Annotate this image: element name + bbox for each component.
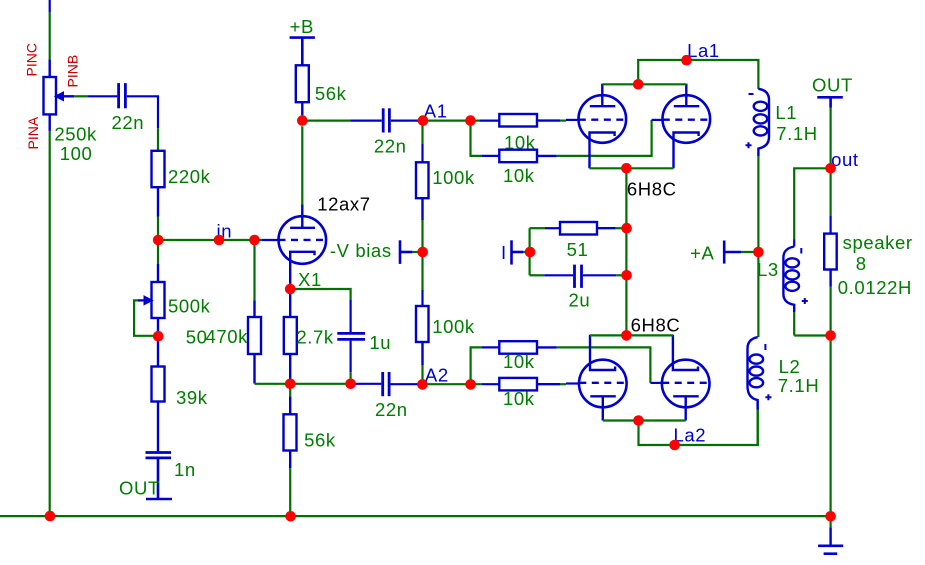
svg-text:X1: X1	[298, 269, 322, 290]
node 1u bottom	[345, 379, 356, 390]
svg-text:1u: 1u	[369, 332, 391, 353]
resistor R6 470k	[248, 300, 261, 383]
wire lower cathodes connector	[590, 334, 673, 336]
node La1	[681, 55, 692, 66]
wire C5 to A2	[391, 383, 423, 385]
wire 2u right lead	[583, 274, 627, 276]
wire 1u to bottom row	[350, 341, 352, 384]
terminal OUT (bottom left)	[146, 459, 172, 499]
capacitor C5 22n (to A2)	[383, 372, 389, 396]
wire C3 to A1	[391, 119, 424, 121]
svg-text:100k: 100k	[432, 316, 475, 337]
triode V1 6H8C (upper left)	[579, 84, 627, 169]
svg-text:La1: La1	[687, 40, 720, 61]
node 500k bottom	[153, 331, 164, 342]
wire 51/2u left rail	[528, 228, 530, 275]
resistor R5 2.7k	[284, 294, 297, 384]
wire +A stub	[741, 251, 758, 253]
wire in row down to 470k	[253, 240, 255, 300]
wire I stub to node	[523, 251, 530, 253]
node lower cathodes	[621, 330, 632, 341]
node speaker bottom	[825, 330, 836, 341]
triode V3 6H8C (lower left, mirrored)	[579, 335, 627, 421]
wire upper plates connector	[602, 83, 686, 85]
wire A1 row right	[424, 119, 500, 121]
potentiometer P2 500k	[138, 264, 165, 336]
node bottom right	[825, 511, 836, 522]
svg-text:+B: +B	[290, 16, 314, 37]
node X1	[285, 284, 296, 295]
terminal +A	[724, 241, 741, 264]
node lower plates	[633, 415, 644, 426]
svg-text:22n: 22n	[112, 112, 145, 133]
svg-text:2u: 2u	[569, 289, 591, 310]
wire L2 down to La2 wire	[756, 410, 758, 445]
node A1	[418, 115, 429, 126]
resistor R4 56k (top)	[296, 65, 309, 115]
wire A1 branch down to row 2	[471, 121, 500, 156]
resistor R3 39k	[152, 336, 165, 451]
node upper cathodes	[621, 163, 632, 174]
wire +A node to L2	[757, 252, 759, 337]
wire 2u left lead	[530, 274, 573, 276]
wire in row	[158, 239, 262, 241]
svg-text:0.0122H: 0.0122H	[838, 277, 912, 298]
svg-text:1n: 1n	[174, 459, 196, 480]
wire plate node down to La2 wire	[639, 401, 758, 446]
wire out node to L3	[794, 168, 830, 246]
wire speaker to bottom node	[829, 287, 831, 336]
wire C1 to R 220k	[127, 96, 158, 151]
svg-text:L2: L2	[779, 356, 801, 377]
resistor R13 10k (lower row 2)	[499, 378, 560, 391]
node A1 branch	[465, 115, 476, 126]
svg-text:56k: 56k	[315, 83, 347, 104]
terminal -V bias	[400, 240, 412, 264]
svg-text:22n: 22n	[375, 399, 408, 420]
svg-text:6H8C: 6H8C	[631, 315, 681, 336]
svg-text:51: 51	[567, 239, 589, 260]
svg-text:56k: 56k	[304, 430, 336, 451]
svg-text:10k: 10k	[503, 165, 535, 186]
svg-text:PINB: PINB	[65, 55, 81, 88]
wire X1 node to 1u branch	[290, 289, 350, 332]
svg-text:OUT: OUT	[119, 477, 160, 498]
svg-text:10k: 10k	[503, 388, 535, 409]
node 2.7k bottom	[285, 379, 296, 390]
inductor L1	[746, 89, 770, 157]
wire A2 branch up to row 1	[471, 347, 500, 384]
svg-text:PINC: PINC	[24, 43, 40, 76]
resistor R2 220k	[152, 151, 165, 217]
svg-text:A2: A2	[425, 364, 449, 385]
wire cathode bottom row	[255, 383, 351, 385]
wire cathode rail down	[625, 168, 627, 335]
wire in node down to 500k	[157, 240, 159, 264]
capacitor C6 2u	[575, 265, 582, 288]
node bottom left	[45, 511, 56, 522]
svg-text:50: 50	[186, 327, 208, 348]
wire bias stub	[412, 251, 422, 253]
wire lower plates connector	[603, 419, 686, 421]
wire wiper to C1	[74, 95, 117, 97]
wire A2 row right	[422, 383, 499, 385]
terminal OUT (top right)	[817, 97, 843, 107]
wire left rail vertical	[49, 0, 51, 516]
wire out node down to speaker	[829, 168, 831, 233]
node A2	[417, 379, 428, 390]
svg-text:L3: L3	[757, 259, 779, 280]
svg-text:12ax7: 12ax7	[317, 194, 370, 215]
wire R10 to V1 grid	[560, 119, 579, 122]
resistor R14 10k (lower row 1)	[499, 341, 557, 354]
svg-text:250k: 250k	[54, 124, 97, 145]
wire bias node down to 100k bottom	[421, 252, 423, 306]
wire +B node to C3	[302, 115, 382, 121]
terminal +B	[290, 38, 315, 66]
svg-text:470k: 470k	[206, 326, 249, 347]
wire plate node up to La1 wire	[638, 60, 758, 89]
wire bottom row to C5	[351, 383, 382, 385]
resistor R8 100k (top)	[416, 162, 429, 220]
resistor R11 10k (upper row 2)	[499, 150, 557, 163]
svg-text:OUT: OUT	[812, 75, 853, 96]
wire bottom ground rail	[0, 515, 831, 517]
svg-text:220k: 220k	[168, 166, 211, 187]
svg-text:2.7k: 2.7k	[296, 327, 334, 348]
svg-text:500k: 500k	[168, 295, 211, 316]
wire 100k to -V bias node	[421, 220, 423, 252]
wire 220k to in node	[157, 217, 159, 241]
inductor L2	[748, 337, 772, 409]
node +B/56k	[297, 115, 308, 126]
svg-text:100k: 100k	[432, 167, 475, 188]
svg-text:7.1H: 7.1H	[776, 123, 817, 144]
wire R13 to V3 grid	[560, 382, 579, 385]
resistor R10 10k (upper row 1)	[499, 114, 560, 127]
svg-text:-V bias: -V bias	[330, 240, 392, 261]
svg-text:10k: 10k	[503, 351, 535, 372]
node bottom 56k	[285, 511, 296, 522]
wire A1 down to 100k	[421, 121, 423, 163]
node 500k top	[153, 235, 164, 246]
capacitor C3 22n (to A1)	[383, 108, 389, 132]
wire 100k bottom to A2	[421, 365, 423, 384]
node out	[825, 163, 836, 174]
resistor R7 56k (bottom)	[284, 384, 297, 516]
svg-text:39k: 39k	[176, 387, 208, 408]
resistor speaker 8	[824, 234, 837, 287]
svg-text:8: 8	[856, 253, 867, 274]
svg-text:L1: L1	[775, 102, 797, 123]
capacitor C1 22n	[119, 83, 126, 108]
svg-text:I: I	[501, 242, 507, 263]
node 2u right	[621, 270, 632, 281]
wire 51 left lead	[530, 227, 560, 229]
wire right rail down	[829, 336, 831, 517]
wire ground stub	[829, 516, 831, 527]
inductor L3	[783, 247, 807, 313]
svg-text:22n: 22n	[374, 136, 407, 157]
triode V2 6H8C (upper right)	[663, 84, 711, 169]
node 51 right	[621, 223, 632, 234]
wire 500k wiper loop	[134, 300, 158, 335]
resistor R12 51	[560, 222, 616, 235]
svg-text:speaker: speaker	[843, 232, 913, 253]
wire L3 to speaker bottom	[794, 312, 830, 336]
resistor R9 100k (bottom)	[416, 306, 429, 365]
node +A	[753, 247, 764, 258]
capacitor C4 1u	[337, 333, 365, 339]
svg-text:100: 100	[60, 143, 93, 164]
svg-text:6H8C: 6H8C	[627, 179, 677, 200]
terminal I	[512, 240, 524, 264]
triode V4 6H8C (lower right, mirrored)	[662, 335, 710, 421]
wire OUT to out node	[829, 108, 831, 169]
wire R14 to V4 grid	[557, 347, 662, 383]
wire upper cathodes connector	[590, 167, 674, 169]
wire R11 to V2 grid	[557, 120, 663, 156]
svg-text:7.1H: 7.1H	[778, 375, 819, 396]
node -V bias	[417, 247, 428, 258]
svg-text:+A: +A	[690, 243, 714, 264]
node in	[214, 235, 225, 246]
node grid 12ax7	[249, 235, 260, 246]
triode U1 12ax7	[279, 204, 327, 289]
svg-text:PINA: PINA	[25, 116, 41, 149]
wire 51 right lead	[616, 227, 627, 229]
node I terminal	[525, 247, 536, 258]
node upper plates	[633, 79, 644, 90]
potentiometer P1 250k	[44, 59, 75, 130]
node A2 branch	[465, 379, 476, 390]
wire plate of 12ax7 up	[301, 126, 303, 205]
ground	[818, 527, 843, 553]
capacitor C2 1n	[146, 453, 172, 458]
node La2	[669, 440, 680, 451]
wire L1 to +A node	[757, 156, 759, 252]
wire grid of 12ax7	[262, 239, 279, 241]
